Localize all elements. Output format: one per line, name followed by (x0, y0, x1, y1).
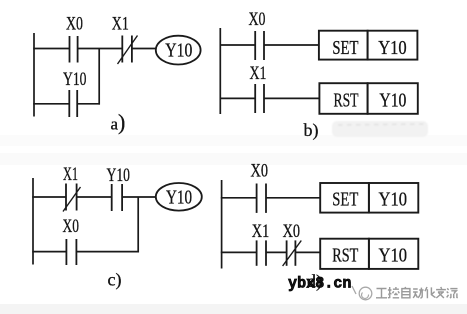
wire: c branch right vertical (137, 197, 139, 252)
contact X1 normally-closed (c) (66, 184, 77, 211)
svg-text:X0: X0 (63, 216, 80, 237)
wire: d X0 to RST box (295, 251, 320, 253)
contact X0 normally-closed (d) (287, 240, 296, 265)
svg-text:Y10: Y10 (165, 40, 192, 62)
box Y10 of SET (d) (369, 183, 418, 213)
wire: d X1 to X0 (266, 251, 287, 253)
contact X0 (d) (257, 184, 266, 213)
watermark text 工控自动化交流 drawn as glyph shapes (376, 287, 458, 298)
box Y10 of SET (b) (368, 31, 418, 60)
wire: a rung1 rail to X0 (33, 48, 69, 50)
wire: d rung1 rail to X0 (221, 197, 257, 199)
slash of NC contact X1 (a) (118, 36, 138, 65)
svg-text:X1: X1 (252, 221, 269, 242)
svg-text:Y10: Y10 (379, 189, 408, 211)
diagram a: left power rail (33, 33, 35, 117)
contact X1 (d) (257, 240, 266, 265)
wire: a branch rung rail to Y10 contact (33, 103, 69, 105)
wire: a X1 to coil (132, 48, 156, 50)
wire: a branch right vertical (98, 49, 100, 105)
wire: a branch Y10 contact to vertical (77, 103, 100, 105)
slash of NC contact X0 (d) (283, 241, 302, 267)
box RST (d) (320, 239, 369, 269)
contact X0 (c) (66, 239, 76, 265)
box Y10 of RST (b) (368, 83, 418, 114)
svg-text:X0: X0 (249, 9, 266, 30)
svg-text:SET: SET (332, 37, 358, 59)
wire: d rung2 rail to X1 (221, 251, 257, 253)
svg-text:b): b) (304, 120, 319, 141)
svg-text:Y10: Y10 (379, 90, 406, 112)
watermark logo circle icon (352, 286, 372, 300)
wire: b rung2 rail to X1 (220, 97, 256, 99)
contact Y10 (c) (112, 184, 122, 211)
wire: c branch rung rail to X0 (32, 251, 66, 253)
diagram c: left power rail (32, 178, 34, 265)
svg-text:SET: SET (332, 189, 358, 211)
svg-text:X0: X0 (283, 221, 301, 242)
glyph 交 (436, 287, 446, 298)
svg-text:X0: X0 (66, 13, 83, 34)
wire: b rung1 rail to X0 (220, 44, 256, 46)
wire: c Y10 contact to coil (122, 196, 156, 198)
svg-text:X1: X1 (250, 63, 267, 84)
svg-text:Y10: Y10 (378, 37, 407, 59)
wire: a X0 to X1 (78, 48, 123, 50)
contact X0 (b) (255, 31, 264, 60)
wire: b X0 to SET box (264, 44, 319, 46)
contact X0 (a) (70, 36, 78, 63)
svg-text:Y10: Y10 (107, 165, 131, 186)
box RST (b) (319, 83, 367, 114)
box SET (b) (319, 31, 368, 60)
wire: b X1 to RST box (264, 97, 319, 99)
glyph 工 (376, 289, 387, 298)
slash of NC contact X1 (c) (63, 187, 81, 212)
coil Y10 (c) (156, 183, 202, 211)
glyph 控 (388, 287, 399, 298)
contact X1 (b) (255, 84, 264, 113)
glyph 自 (402, 287, 410, 298)
svg-text:ybx8.cn: ybx8.cn (288, 275, 352, 293)
svg-text:RST: RST (334, 90, 359, 112)
svg-text:c): c) (108, 270, 122, 291)
svg-text:Y10: Y10 (166, 187, 192, 209)
diagram d: left power rail (221, 180, 223, 269)
svg-text:Y10: Y10 (63, 69, 87, 90)
svg-text:X1: X1 (112, 13, 129, 34)
watermark smudge right of b) (332, 121, 428, 137)
glyph 化 (425, 287, 436, 298)
svg-text:X1: X1 (63, 164, 78, 185)
glyph 流 (447, 288, 458, 298)
svg-text:X0: X0 (251, 161, 269, 182)
coil Y10 (a) (156, 36, 201, 65)
contact X1 normally-closed (a) (122, 36, 132, 63)
glyph 动 (413, 288, 424, 298)
wire: d X0 to SET box (266, 197, 320, 199)
contact Y10 (a) (69, 90, 77, 117)
svg-text:RST: RST (332, 245, 358, 267)
wire: c X1 to Y10 contact (77, 196, 112, 198)
box SET (d) (320, 183, 369, 213)
wire: c branch X0 to vertical (76, 251, 139, 253)
box Y10 of RST (d) (369, 239, 418, 269)
wire: c rung1 rail to X1 (32, 196, 66, 198)
svg-text:Y10: Y10 (379, 245, 408, 267)
diagram b: left power rail (219, 28, 221, 114)
